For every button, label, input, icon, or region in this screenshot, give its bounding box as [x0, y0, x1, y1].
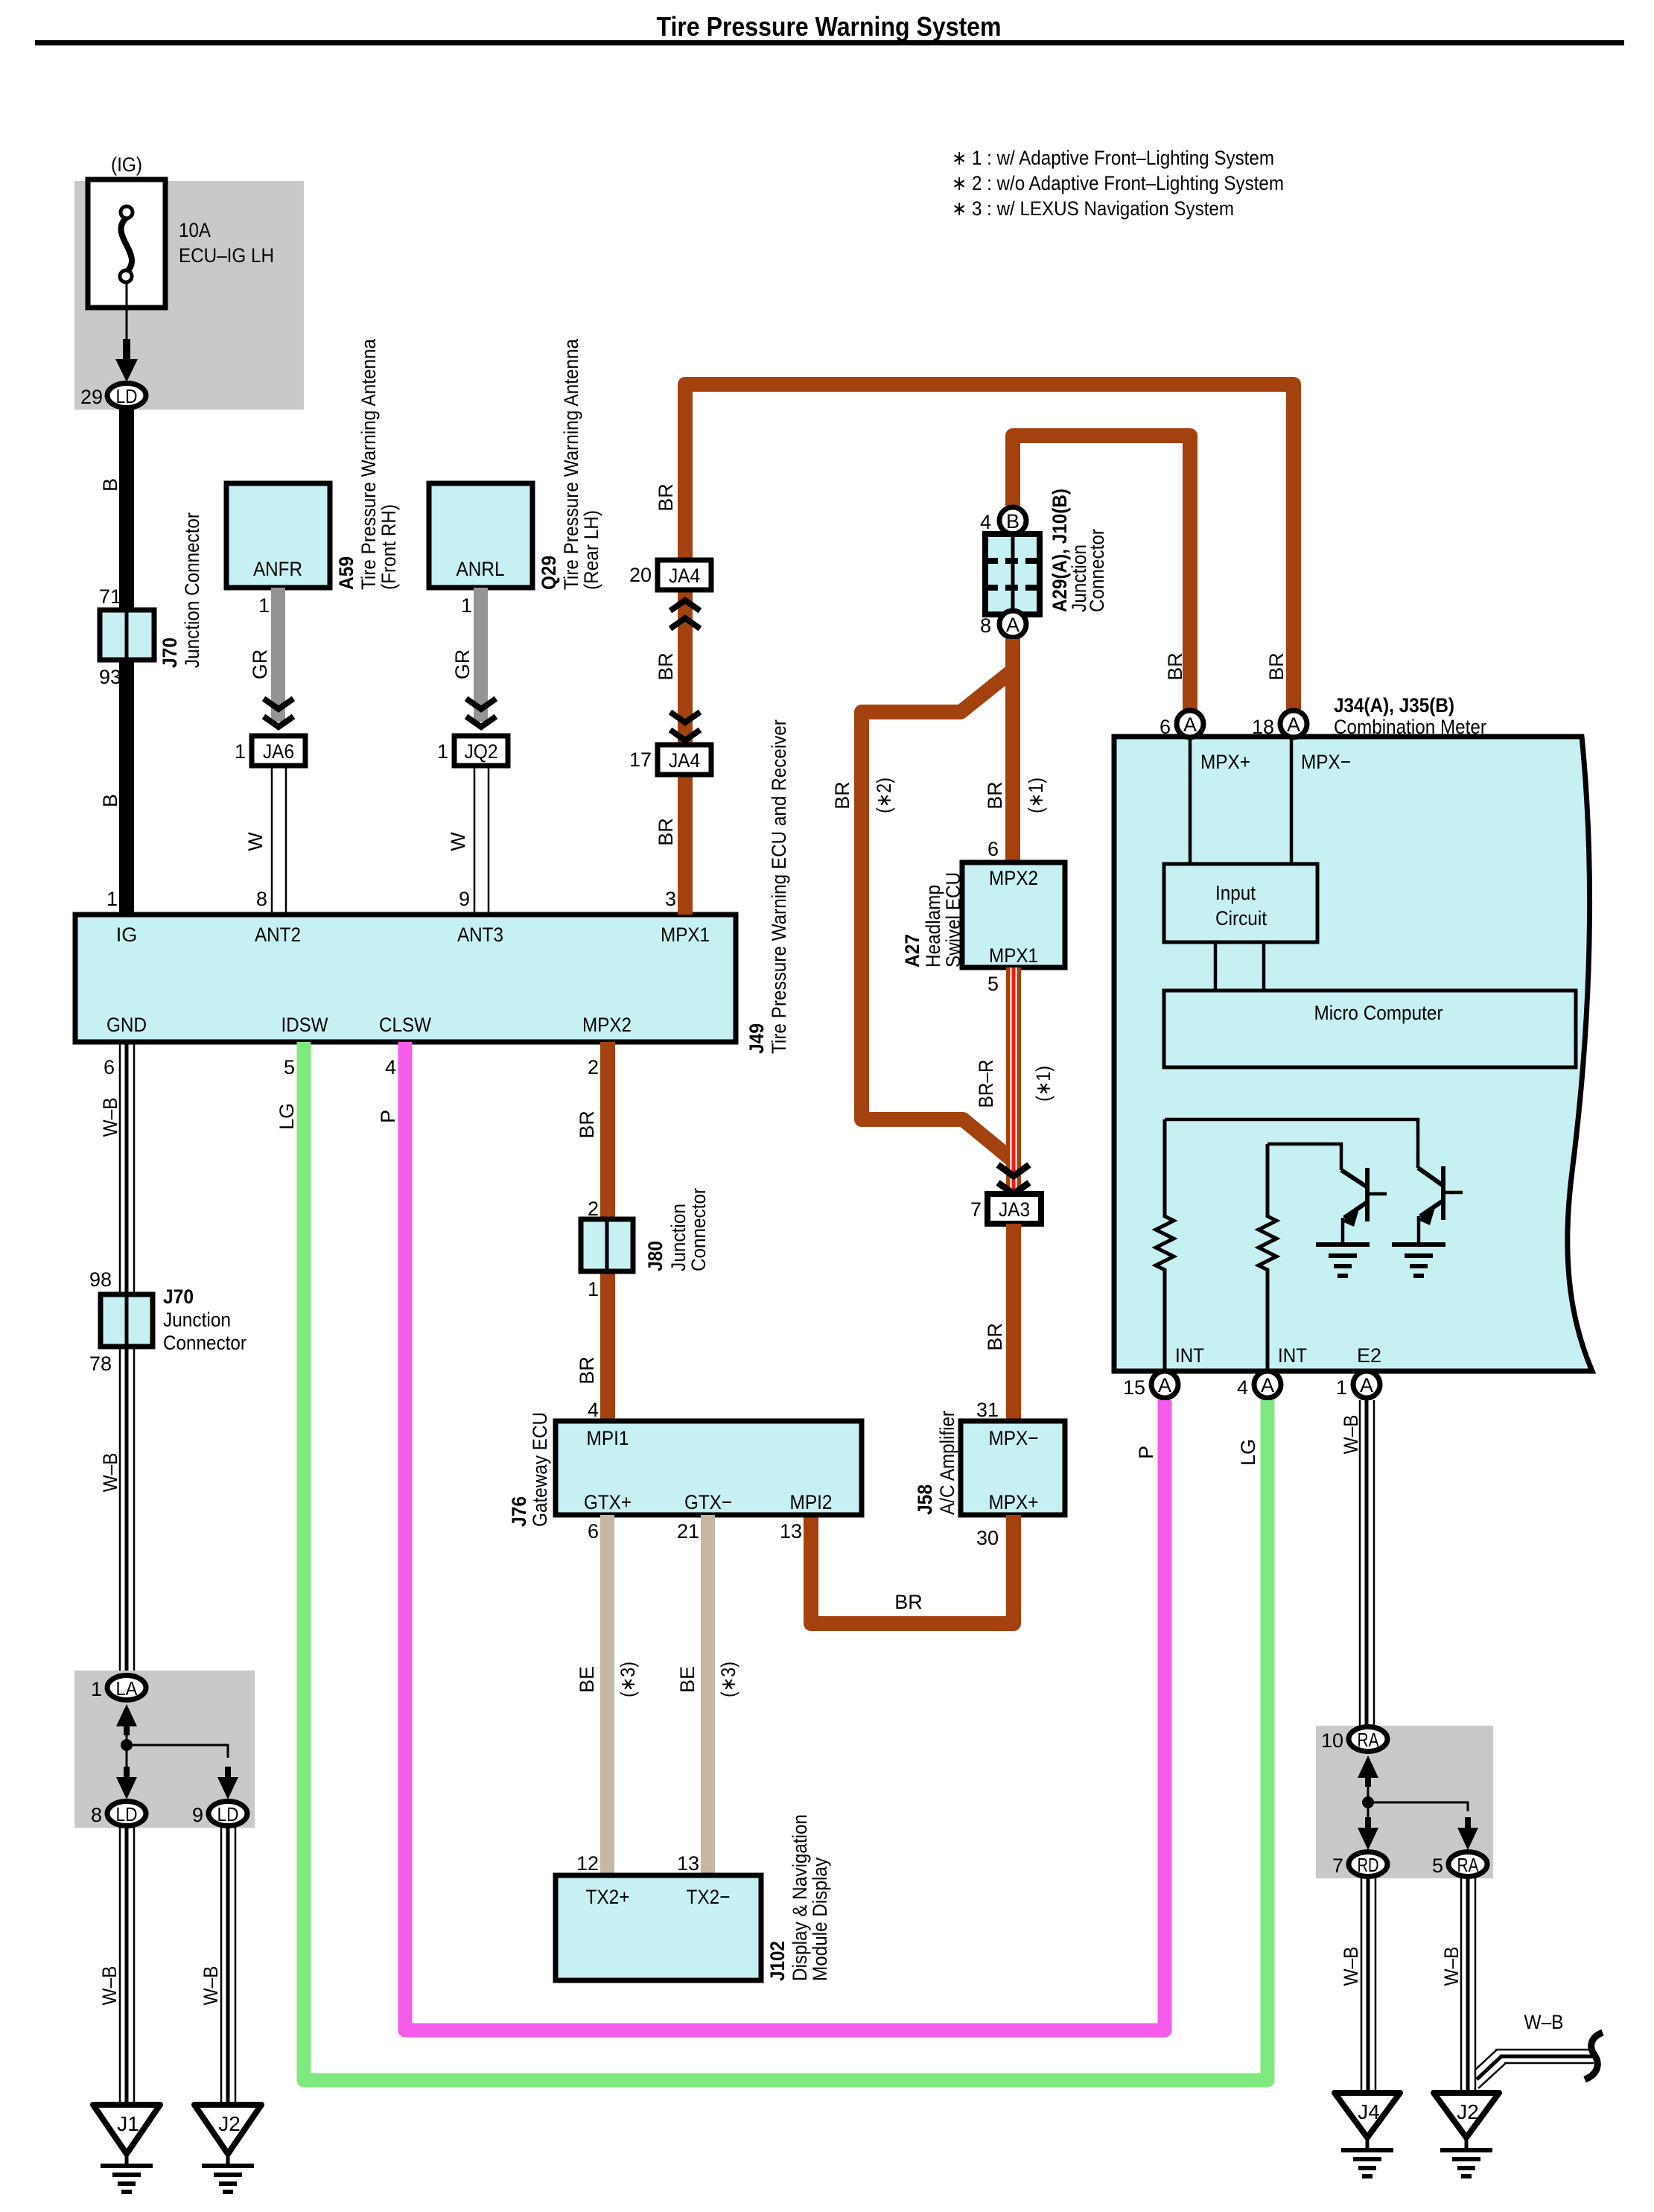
- svg-text:Q29: Q29: [538, 556, 560, 590]
- svg-text:Gateway ECU: Gateway ECU: [529, 1412, 551, 1527]
- wire W JA6 to ANT2: [271, 766, 273, 915]
- svg-text:A/C Amplifier: A/C Amplifier: [936, 1411, 958, 1515]
- svg-text:JA6: JA6: [263, 740, 294, 763]
- wire BR J58 MPX+ to J76 MPI2 (U shape): [811, 1515, 1014, 1624]
- chevron into JA6: [264, 699, 293, 709]
- svg-text:LG: LG: [276, 1103, 298, 1130]
- internal rail to left transistor: [1267, 1144, 1341, 1170]
- arrow down into 8 LD: [126, 1745, 128, 1780]
- svg-text:GR: GR: [249, 649, 271, 680]
- svg-text:7: 7: [970, 1198, 982, 1221]
- wire GR ANFR to JA6: [271, 588, 285, 722]
- svg-text:BR: BR: [984, 1323, 1006, 1351]
- svg-text:MPX1: MPX1: [989, 944, 1038, 967]
- svg-text:17: 17: [629, 749, 652, 771]
- svg-text:BR: BR: [1164, 652, 1186, 681]
- svg-text:B: B: [99, 478, 121, 492]
- svg-text:(∗3): (∗3): [717, 1662, 739, 1697]
- wire MPX- into input circuit: [1290, 740, 1294, 864]
- continuation curl: [1585, 2033, 1603, 2079]
- svg-text:W: W: [244, 832, 267, 851]
- svg-text:29: 29: [80, 386, 103, 408]
- svg-text:93: 93: [99, 666, 121, 688]
- svg-text:13: 13: [780, 1520, 802, 1542]
- svg-text:A: A: [1360, 1374, 1373, 1396]
- svg-text:J102: J102: [766, 1941, 789, 1981]
- wire W-B E2 to RA: [1360, 1400, 1374, 1726]
- branch W-B stub with continuation curl: [1475, 2050, 1594, 2088]
- connector oval LD (9): [209, 1802, 247, 1826]
- svg-text:LD: LD: [116, 385, 138, 407]
- arrow into pin 29: [115, 339, 138, 382]
- svg-text:W: W: [447, 832, 469, 851]
- svg-text:1: 1: [258, 594, 270, 617]
- display & navigation module display J102 box: [556, 1875, 761, 1980]
- svg-text:ECU–IG LH: ECU–IG LH: [179, 244, 274, 267]
- svg-text:RA: RA: [1358, 1729, 1380, 1751]
- svg-text:J76: J76: [508, 1496, 530, 1527]
- ECU J49 box: [75, 915, 736, 1042]
- svg-text:J2: J2: [1457, 2100, 1479, 2123]
- svg-text:IDSW: IDSW: [282, 1014, 328, 1036]
- svg-text:5: 5: [1432, 1855, 1443, 1877]
- svg-text:ANT2: ANT2: [255, 924, 301, 946]
- pin circle A (1): [1353, 1371, 1380, 1398]
- input circuit box: [1164, 864, 1317, 942]
- headlamp swivel ECU A27 box: [962, 862, 1065, 967]
- wire W-B RA5 to J2: [1461, 1878, 1475, 2093]
- combination meter J34(A), J35(B) box: [1114, 737, 1592, 1371]
- svg-text:Connector: Connector: [687, 1188, 710, 1271]
- gray harness box (fuse area): [74, 181, 304, 410]
- svg-text:Tire Pressure Warning ECU and: Tire Pressure Warning ECU and Receiver: [768, 719, 790, 1054]
- wire LG IDSW to INT 4: [304, 1042, 1267, 2080]
- connector oval RA (5): [1448, 1852, 1487, 1877]
- svg-text:31: 31: [976, 1399, 999, 1421]
- wire BE GTX- to TX2-: [701, 1515, 715, 1875]
- connector oval LD (8): [107, 1802, 146, 1826]
- wire W-B LD9 to J2: [221, 1827, 235, 2105]
- svg-text:5: 5: [987, 973, 999, 995]
- svg-text:Combination Meter: Combination Meter: [1334, 716, 1486, 738]
- svg-text:1: 1: [235, 740, 246, 763]
- svg-text:MPX1: MPX1: [661, 924, 710, 946]
- svg-text:Module Display: Module Display: [809, 1857, 831, 1981]
- arrow down into 7 RD: [1367, 1802, 1370, 1831]
- svg-text:(IG): (IG): [111, 153, 142, 176]
- svg-text:W–B: W–B: [98, 1966, 121, 2006]
- svg-text:Tire Pressure Warning System: Tire Pressure Warning System: [657, 11, 1002, 42]
- svg-text:ANRL: ANRL: [457, 558, 505, 580]
- wire W-B LD8 to J1: [120, 1827, 134, 2105]
- svg-text:1: 1: [91, 1678, 102, 1700]
- wire GR ANRL to JQ2: [474, 588, 488, 722]
- svg-text:J1: J1: [117, 2112, 139, 2135]
- ground J2: [194, 2105, 261, 2194]
- ground J2 (right): [1434, 2093, 1499, 2178]
- svg-text:J70: J70: [159, 638, 181, 668]
- connector JQ2: [454, 736, 508, 766]
- gray harness box (RA/RD): [1316, 1726, 1493, 1878]
- pin circle A (6): [1177, 711, 1203, 737]
- svg-text:4: 4: [1237, 1376, 1248, 1399]
- svg-text:6: 6: [987, 838, 999, 860]
- svg-text:JA3: JA3: [999, 1198, 1030, 1221]
- svg-text:W–B: W–B: [99, 1098, 121, 1137]
- svg-text:∗ 2 : w/o Adaptive Front–Light: ∗ 2 : w/o Adaptive Front–Lighting System: [952, 172, 1284, 194]
- A/C amplifier J58 box: [961, 1421, 1065, 1515]
- ground (left transistor): [1316, 1242, 1370, 1278]
- svg-text:BE: BE: [576, 1666, 598, 1693]
- svg-text:7: 7: [1332, 1855, 1343, 1877]
- wire BR MPX1 up over to pin 18A (combination meter): [685, 384, 1294, 915]
- wire W JQ2 to ANT3: [474, 766, 476, 915]
- svg-text:10: 10: [1321, 1729, 1343, 1752]
- svg-text:B: B: [99, 794, 121, 807]
- svg-text:RD: RD: [1358, 1854, 1379, 1876]
- svg-text:Tire Pressure Warning Antenna: Tire Pressure Warning Antenna: [357, 338, 380, 590]
- junction connector A29(A) J10(B): [985, 534, 1040, 614]
- ground J1: [93, 2105, 160, 2194]
- arrow down into 5 RA: [1457, 1817, 1478, 1850]
- svg-text:JA4: JA4: [669, 749, 700, 772]
- svg-text:1: 1: [1336, 1376, 1347, 1399]
- micro computer box: [1164, 991, 1576, 1067]
- svg-text:3: 3: [665, 888, 676, 910]
- pin circle A (15): [1151, 1371, 1178, 1398]
- svg-text:GTX+: GTX+: [584, 1491, 632, 1513]
- connector JA4 (20): [658, 560, 711, 590]
- wire MPX+ into input circuit: [1189, 740, 1192, 864]
- svg-text:W–B: W–B: [1440, 1947, 1463, 1986]
- svg-text:W–B: W–B: [1524, 2011, 1564, 2033]
- wire W-B GND to LA: [120, 1042, 134, 1674]
- svg-text:Junction: Junction: [163, 1309, 231, 1331]
- ground (right transistor): [1392, 1242, 1445, 1278]
- svg-text:MPX2: MPX2: [582, 1014, 632, 1036]
- svg-text:1: 1: [437, 740, 448, 763]
- svg-text:RA: RA: [1457, 1854, 1480, 1876]
- svg-text:A: A: [1006, 614, 1020, 636]
- wire BR-R A27 MPX1 to JA3: [1006, 967, 1021, 1194]
- svg-text:Micro Computer: Micro Computer: [1314, 1002, 1443, 1024]
- svg-text:W–B: W–B: [99, 1453, 121, 1493]
- chevron up into JA4 20: [670, 600, 700, 611]
- svg-text:MPI2: MPI2: [790, 1491, 833, 1513]
- gray harness box (LA/LD): [74, 1671, 255, 1828]
- svg-text:ANFR: ANFR: [253, 558, 302, 580]
- svg-text:Display & Navigation: Display & Navigation: [789, 1814, 811, 1981]
- svg-text:1: 1: [461, 594, 472, 617]
- wire branch to 5 RA: [1368, 1802, 1468, 1811]
- svg-text:LD: LD: [116, 1803, 138, 1825]
- connector oval RD (7): [1349, 1852, 1387, 1877]
- svg-text:98: 98: [89, 1268, 112, 1291]
- svg-text:30: 30: [976, 1527, 999, 1549]
- junction connector J70 (upper): [100, 610, 154, 660]
- connector JA6: [252, 736, 305, 766]
- wire BR MPX2 to J80 to MPI1: [600, 1042, 615, 1219]
- connector JA4 (17): [658, 745, 711, 775]
- connector circle A (A29/J10): [999, 611, 1026, 638]
- svg-text:J34(A), J35(B): J34(A), J35(B): [1334, 694, 1454, 716]
- svg-text:LA: LA: [116, 1677, 139, 1700]
- svg-text:Connector: Connector: [163, 1332, 246, 1354]
- svg-text:6: 6: [588, 1520, 599, 1542]
- svg-text:MPX−: MPX−: [1301, 751, 1351, 773]
- arrow down into 9 LD: [217, 1767, 238, 1799]
- svg-text:1: 1: [106, 888, 118, 910]
- svg-text:(∗3): (∗3): [617, 1662, 639, 1697]
- junction connector J80: [581, 1219, 633, 1271]
- svg-text:BR: BR: [894, 1591, 923, 1613]
- svg-text:13: 13: [677, 1852, 699, 1875]
- svg-text:20: 20: [629, 564, 652, 586]
- connector oval RA (10): [1349, 1727, 1387, 1752]
- wire B (black) J70 to J49 IG: [119, 660, 134, 915]
- svg-text:B: B: [1006, 510, 1020, 533]
- svg-text:∗ 1 : w/ Adaptive Front–Lighti: ∗ 1 : w/ Adaptive Front–Lighting System: [952, 147, 1274, 169]
- svg-text:9: 9: [459, 888, 470, 910]
- svg-text:1: 1: [588, 1278, 599, 1300]
- svg-text:12: 12: [576, 1852, 599, 1875]
- transistor Q1 (left): [1341, 1168, 1387, 1245]
- svg-text:78: 78: [89, 1353, 112, 1375]
- svg-text:JA4: JA4: [669, 565, 700, 587]
- svg-text:P: P: [377, 1110, 399, 1123]
- wire BR(*2) A29 A to JA3 (left loop): [862, 670, 1013, 1160]
- svg-text:Input: Input: [1215, 882, 1256, 904]
- svg-text:A27: A27: [901, 934, 923, 967]
- wire W-B RD to J4: [1361, 1878, 1375, 2093]
- svg-text:GND: GND: [106, 1014, 147, 1036]
- svg-text:8: 8: [91, 1804, 102, 1826]
- antenna ANFR box A59: [226, 483, 330, 588]
- svg-text:2: 2: [588, 1056, 599, 1078]
- wire BR(*1) A29 A to A27 MPX2: [1005, 639, 1020, 862]
- svg-text:21: 21: [677, 1520, 699, 1542]
- svg-text:(Rear LH): (Rear LH): [580, 510, 602, 590]
- svg-text:(Front RH): (Front RH): [378, 504, 400, 590]
- antenna ANRL box Q29: [429, 483, 532, 588]
- ground J4: [1335, 2093, 1400, 2178]
- svg-text:BR: BR: [655, 652, 677, 681]
- svg-text:Junction Connector: Junction Connector: [181, 512, 203, 668]
- svg-text:5: 5: [284, 1056, 295, 1078]
- svg-text:4: 4: [588, 1399, 599, 1421]
- svg-text:BE: BE: [676, 1666, 699, 1693]
- svg-text:∗ 3 : w/ LEXUS Navigation Syst: ∗ 3 : w/ LEXUS Navigation System: [952, 197, 1234, 220]
- transistor Q2 (right): [1418, 1166, 1463, 1245]
- svg-text:(∗1): (∗1): [1032, 1066, 1055, 1102]
- fuse element: [121, 217, 132, 273]
- svg-text:Junction: Junction: [667, 1204, 690, 1271]
- svg-text:W–B: W–B: [200, 1966, 222, 2006]
- svg-text:Headlamp: Headlamp: [922, 885, 944, 967]
- pin circle A (18): [1280, 711, 1307, 737]
- svg-text:Swivel ECU: Swivel ECU: [942, 872, 964, 967]
- svg-text:E2: E2: [1357, 1344, 1381, 1367]
- svg-text:4: 4: [980, 511, 991, 533]
- wire BR from A29 pin B up over to pin 6A: [1013, 436, 1190, 725]
- svg-text:TX2−: TX2−: [687, 1886, 731, 1908]
- title rule: [35, 40, 1624, 45]
- arrow up into RA: [1358, 1755, 1378, 1787]
- fuse ECU-IG LH box: [88, 179, 165, 308]
- svg-text:ANT3: ANT3: [457, 924, 503, 946]
- svg-text:Tire Pressure Warning Antenna: Tire Pressure Warning Antenna: [560, 338, 582, 590]
- svg-text:A: A: [1287, 714, 1300, 736]
- svg-text:J80: J80: [644, 1241, 667, 1271]
- wires input circuit to micro computer: [1214, 942, 1218, 991]
- junction node: [121, 1739, 133, 1751]
- svg-text:MPX+: MPX+: [989, 1491, 1039, 1513]
- svg-text:J2: J2: [218, 2112, 241, 2135]
- svg-text:(∗2): (∗2): [873, 778, 895, 813]
- wire BR JA3 to J58 MPX-: [1006, 1224, 1021, 1421]
- svg-text:J4: J4: [1358, 2100, 1380, 2123]
- arrow up into LA: [116, 1704, 137, 1735]
- wire B (black) LD to J70: [119, 408, 134, 610]
- svg-text:BR: BR: [576, 1110, 598, 1139]
- resistor R2 (INT 4): [1259, 1144, 1276, 1371]
- svg-text:(∗1): (∗1): [1025, 778, 1047, 813]
- svg-text:MPI1: MPI1: [587, 1427, 629, 1449]
- internal rail to right transistor: [1165, 1119, 1418, 1168]
- svg-text:W–B: W–B: [1340, 1947, 1362, 1986]
- svg-text:MPX2: MPX2: [989, 867, 1038, 889]
- svg-text:A59: A59: [335, 556, 357, 590]
- svg-text:CLSW: CLSW: [379, 1014, 431, 1036]
- svg-text:A: A: [1158, 1374, 1171, 1396]
- wire branch to 9 LD: [127, 1745, 228, 1758]
- svg-text:INT: INT: [1175, 1344, 1204, 1367]
- svg-text:BR: BR: [655, 818, 677, 846]
- pin circle A (4): [1254, 1371, 1281, 1398]
- svg-text:10A: 10A: [179, 219, 211, 241]
- svg-text:BR: BR: [655, 483, 677, 512]
- svg-text:W–B: W–B: [1340, 1415, 1362, 1455]
- svg-text:J70: J70: [163, 1285, 194, 1308]
- svg-text:GTX−: GTX−: [684, 1491, 732, 1513]
- svg-text:BR: BR: [576, 1356, 598, 1385]
- wire fuse to arrow: [126, 282, 128, 359]
- junction connector J70 (lower): [101, 1294, 153, 1347]
- chevron down into JA4 17: [670, 712, 700, 722]
- svg-text:IG: IG: [116, 924, 138, 946]
- svg-text:BR: BR: [1265, 652, 1288, 681]
- svg-text:A: A: [1183, 714, 1197, 736]
- svg-text:18: 18: [1252, 716, 1274, 738]
- svg-text:71: 71: [99, 585, 121, 608]
- svg-text:MPX+: MPX+: [1200, 751, 1250, 773]
- svg-text:TX2+: TX2+: [586, 1886, 630, 1908]
- svg-text:BR: BR: [831, 781, 853, 810]
- svg-text:8: 8: [256, 888, 267, 910]
- gateway ECU J76 box: [556, 1421, 862, 1515]
- svg-text:MPX−: MPX−: [989, 1427, 1039, 1449]
- svg-text:8: 8: [980, 614, 991, 637]
- svg-text:Connector: Connector: [1086, 529, 1108, 612]
- connector oval LD (pin 29): [107, 384, 146, 408]
- svg-text:GR: GR: [451, 649, 474, 680]
- svg-text:LD: LD: [217, 1803, 239, 1825]
- svg-text:6: 6: [1160, 716, 1171, 738]
- connector oval LA: [107, 1676, 146, 1700]
- svg-text:J58: J58: [914, 1484, 936, 1515]
- svg-text:JQ2: JQ2: [465, 740, 498, 763]
- resistor R1 (INT 15): [1156, 1119, 1174, 1371]
- chevron down into JA3: [998, 1165, 1029, 1176]
- wire P CLSW to INT 15: [405, 1042, 1165, 2030]
- wire BE GTX+ to TX2+: [600, 1515, 614, 1875]
- svg-text:J49: J49: [745, 1023, 768, 1054]
- svg-text:A: A: [1261, 1374, 1274, 1396]
- svg-text:BR–R: BR–R: [975, 1060, 997, 1108]
- connector circle B (A29/J10): [999, 507, 1026, 534]
- svg-text:INT: INT: [1278, 1344, 1307, 1367]
- svg-text:15: 15: [1123, 1376, 1145, 1399]
- junction node: [1362, 1796, 1374, 1808]
- svg-text:4: 4: [385, 1056, 396, 1078]
- svg-text:6: 6: [104, 1056, 115, 1078]
- chevron into JQ2: [466, 699, 496, 709]
- svg-text:9: 9: [192, 1804, 203, 1826]
- connector JA3: [987, 1194, 1041, 1224]
- svg-text:BR: BR: [984, 781, 1006, 810]
- svg-text:Circuit: Circuit: [1215, 907, 1267, 929]
- svg-text:LG: LG: [1237, 1439, 1259, 1466]
- svg-text:P: P: [1135, 1446, 1157, 1459]
